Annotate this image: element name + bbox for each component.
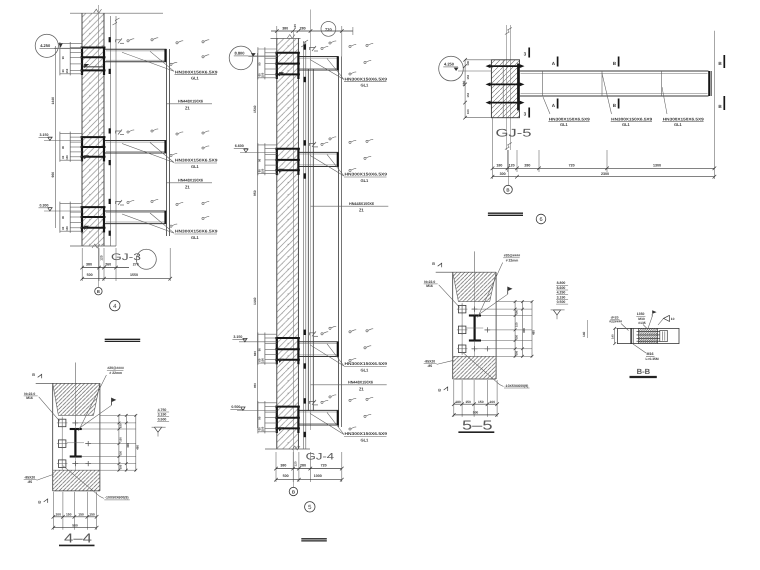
- svg-text:B: B: [506, 188, 509, 193]
- GJ-3 level 2 weld tick above: [109, 128, 111, 133]
- GJ-5 beam splice 3: [661, 71, 663, 96]
- GJ-5 beam splice 1: [541, 71, 543, 96]
- GJ-4 level 4 weld tick below: [304, 432, 306, 437]
- svg-text:90: 90: [61, 145, 65, 149]
- embed plate bar: [275, 73, 300, 75]
- anchor bolts: [70, 206, 82, 208]
- anchor blob: [84, 64, 89, 68]
- GJ-3 beam GL1 level 2 flanges: [104, 140, 167, 142]
- GJ-5 beam end plate: [708, 71, 710, 96]
- svg-text:HN300X150X6.5X9: HN300X150X6.5X9: [345, 431, 388, 436]
- svg-text:1440: 1440: [253, 297, 257, 305]
- svg-text:10: 10: [671, 317, 675, 321]
- svg-text:150: 150: [260, 358, 264, 363]
- GJ-3 beam level 2 end plate: [164, 141, 166, 154]
- GJ-5 level mark 4.250: [439, 56, 464, 81]
- svg-text:1550: 1550: [130, 273, 138, 277]
- svg-text:500: 500: [473, 411, 479, 415]
- svg-text:GL1: GL1: [622, 122, 631, 127]
- section 4–4 right dim lines: [118, 414, 120, 471]
- svg-text:180: 180: [516, 310, 519, 315]
- section 5–5 bottom extension lines: [453, 380, 455, 417]
- svg-text:180: 180: [455, 400, 461, 404]
- GJ-4 level 1 weld specks: [321, 47, 323, 49]
- section 4–4 bolt column centerline: [61, 417, 63, 470]
- GJ-3 bottom extension lines: [81, 248, 83, 281]
- B-B stiffener box: [660, 330, 668, 341]
- GJ-3 beam level 1 end plate: [164, 49, 166, 62]
- GJ-4 level 1 beam leader: [310, 60, 344, 80]
- svg-text:HN448X150X6: HN448X150X6: [348, 380, 374, 385]
- svg-text:380: 380: [280, 464, 286, 468]
- GJ-3 level 2 weld specks: [127, 131, 129, 133]
- section 5–5 right edge: [495, 272, 497, 379]
- embed plate edge bars: [276, 406, 278, 433]
- embed plate bar: [81, 216, 106, 218]
- svg-text:120: 120: [100, 255, 104, 261]
- svg-text:120: 120: [293, 461, 297, 466]
- GJ-3 bottom dim row 2: [82, 278, 170, 280]
- title circle GJ-3: [136, 249, 156, 269]
- svg-text:0.300: 0.300: [40, 204, 49, 208]
- bolt dim verticals: [257, 401, 259, 433]
- svg-text:B: B: [292, 489, 295, 494]
- svg-text:90: 90: [258, 62, 262, 66]
- GJ-4 level 4 weld tick above: [304, 398, 306, 403]
- svg-text:90: 90: [61, 215, 65, 219]
- bolt dim verticals: [257, 47, 259, 79]
- section 4–4 weld flag: [112, 398, 117, 402]
- svg-text:#20@####: #20@####: [107, 366, 124, 370]
- svg-text:150: 150: [65, 226, 69, 231]
- svg-text:GL1: GL1: [361, 83, 370, 88]
- GJ-4 wall right edge: [297, 38, 299, 449]
- svg-text:150: 150: [466, 74, 470, 79]
- svg-text:150: 150: [260, 426, 264, 431]
- section 5–5 column H flanges: [469, 314, 481, 316]
- svg-text:3: 3: [524, 111, 527, 116]
- svg-text:150: 150: [260, 72, 264, 77]
- svg-text:660: 660: [253, 351, 257, 356]
- GJ-4 wall bottom break line: [265, 448, 310, 450]
- GJ-4 level 2 beam leader: [310, 155, 344, 176]
- svg-text:Z1: Z1: [185, 105, 191, 110]
- svg-text:#135: #135: [638, 321, 646, 325]
- GJ-3 level 2 weld flag: [116, 131, 122, 134]
- svg-text:GL1: GL1: [191, 76, 200, 81]
- svg-text:720: 720: [569, 163, 575, 167]
- svg-text:GL1: GL1: [191, 235, 200, 240]
- svg-text:GL1: GL1: [361, 438, 370, 443]
- GJ-4 level 2 weld specks: [321, 143, 323, 145]
- GJ-4 level 3 weld tick below: [304, 363, 306, 368]
- GJ-3 level 1 weld tick below: [109, 69, 111, 74]
- svg-text:300: 300: [500, 172, 506, 176]
- GJ-4 column centerline: [310, 10, 312, 431]
- bolt dim verticals: [59, 132, 61, 162]
- svg-text:HN300X150X6.5X9: HN300X150X6.5X9: [175, 229, 218, 234]
- GJ-4 level 2 weld tick above: [304, 140, 306, 145]
- svg-text:1000: 1000: [314, 474, 322, 478]
- GJ-5 wall block hatch: [491, 60, 519, 118]
- GJ-5 dim row 2: [493, 176, 715, 178]
- section 4–4 title underline: [59, 544, 95, 546]
- bolt dim verticals: [257, 143, 259, 175]
- section 5–5 bottom concrete hatch: [453, 356, 496, 379]
- svg-text:#22####: #22####: [609, 320, 622, 324]
- svg-text:3.150: 3.150: [557, 295, 566, 299]
- svg-text:-85: -85: [427, 364, 432, 368]
- svg-text:GJ-4: GJ-4: [306, 452, 335, 463]
- svg-text:1300: 1300: [653, 163, 661, 167]
- anchor bolts: [265, 148, 277, 150]
- svg-text:GJ-5: GJ-5: [496, 127, 532, 139]
- embed plate bar: [81, 56, 106, 58]
- svg-text:280: 280: [524, 163, 530, 167]
- GJ-4 scale bar: [301, 538, 327, 540]
- svg-text:HN300X150X6.5X9: HN300X150X6.5X9: [175, 69, 218, 74]
- anchor bolts: [70, 47, 82, 49]
- section 4–4 column H web: [74, 429, 76, 457]
- GJ-3 beam GL1 level 1 flanges: [104, 48, 167, 50]
- detail bubble 5: [305, 502, 315, 512]
- GJ-3 left dim line: [54, 46, 56, 228]
- bolt dim verticals: [59, 42, 61, 75]
- GJ-3 level 3 weld flag: [116, 202, 122, 205]
- anchor bolts: [265, 406, 277, 408]
- svg-text:4.750: 4.750: [158, 408, 167, 412]
- anchor blob: [279, 169, 284, 173]
- embed plate bar: [81, 47, 106, 49]
- section 5–5 level triangle: [553, 310, 560, 315]
- svg-text:HN300X150X6.5X9: HN300X150X6.5X9: [663, 116, 705, 121]
- embed plate edge bars: [276, 52, 278, 79]
- svg-text:8.800: 8.800: [557, 281, 566, 285]
- svg-text:300: 300: [522, 328, 526, 333]
- grid line B (GJ-3): [97, 5, 99, 287]
- GJ-5 dim row 1: [493, 167, 715, 169]
- GJ-4 bottom dim row 2: [276, 479, 342, 481]
- section 5–5 bolt crosses: [474, 307, 476, 312]
- GJ-5 scale bar: [488, 212, 523, 214]
- svg-text:0.500: 0.500: [231, 405, 240, 409]
- embed plate bar: [275, 169, 300, 171]
- section 4–4 bottom extension lines: [52, 492, 54, 530]
- svg-text:150: 150: [65, 68, 69, 73]
- section 4–4 top concrete hatch: [53, 383, 100, 415]
- embed plate bar: [81, 227, 106, 229]
- embed plate edge bars: [276, 148, 278, 175]
- svg-text:HN300X150X6.5X9: HN300X150X6.5X9: [345, 361, 388, 366]
- svg-text:150: 150: [465, 400, 471, 404]
- GJ-3 wall bottom break line: [70, 245, 116, 247]
- svg-text:3.150: 3.150: [40, 133, 49, 137]
- svg-text:6.600: 6.600: [235, 144, 244, 148]
- GJ-3 concrete wall hatch: [82, 13, 104, 246]
- embed plate bar: [275, 417, 300, 419]
- GJ-4 beam GL1 level 2 flanges: [298, 151, 338, 153]
- svg-text:0.500: 0.500: [557, 300, 566, 304]
- section 4–4 right edge: [99, 383, 101, 491]
- embed plate bar: [275, 427, 300, 429]
- section 5–5 bolt column centerline: [461, 303, 463, 355]
- GJ-3 top boundary line: [70, 12, 163, 14]
- GJ-4 furring verticals: [302, 41, 304, 449]
- GJ-3 level 1 weld tick above: [109, 37, 111, 42]
- column Z1 label 2: [167, 182, 213, 184]
- svg-text:960: 960: [51, 172, 55, 178]
- svg-text:3: 3: [524, 51, 527, 56]
- section 5–5 centerlines: [474, 251, 476, 272]
- svg-text:3.150: 3.150: [233, 335, 242, 339]
- GJ-4 beam GL1 level 3 flanges: [298, 341, 338, 343]
- GJ-4 level 3 weld specks: [321, 333, 323, 335]
- embed plate bar: [81, 156, 106, 158]
- svg-text:90: 90: [258, 416, 262, 420]
- svg-text:6.600: 6.600: [557, 286, 566, 290]
- svg-text:-85: -85: [27, 480, 32, 484]
- embed plate bar: [81, 136, 106, 138]
- GJ-3 level 2 beam leader: [122, 144, 174, 163]
- svg-text:B: B: [38, 500, 41, 504]
- svg-text:B: B: [97, 289, 100, 294]
- B-B weld flag: [652, 310, 656, 314]
- anchor bolts: [265, 337, 277, 339]
- section 5–5 left edge: [452, 272, 454, 379]
- svg-text:-10X50X600(9): -10X50X600(9): [105, 496, 129, 500]
- svg-text:150: 150: [65, 155, 69, 160]
- svg-text:M16: M16: [26, 396, 33, 400]
- section 5–5 bottom dim row 2: [454, 414, 497, 416]
- GJ-3 beam level 3 end plate: [164, 211, 166, 224]
- GJ-3 furring verticals: [110, 16, 112, 246]
- embed plate bar: [81, 69, 106, 71]
- svg-text:150: 150: [120, 451, 123, 456]
- GJ-5 beam label 3 leader: [662, 87, 667, 114]
- GJ-4 level mark 8.800: [229, 46, 253, 70]
- svg-text:100: 100: [466, 60, 470, 65]
- svg-text:-10X50X600(9): -10X50X600(9): [505, 384, 529, 388]
- section 5–5 title underline: [458, 431, 494, 433]
- svg-text:100: 100: [55, 513, 61, 517]
- svg-text:720: 720: [325, 27, 332, 32]
- svg-text:680: 680: [462, 80, 466, 86]
- anchor bolts: [70, 136, 82, 138]
- svg-text:140: 140: [611, 334, 615, 339]
- svg-text:380: 380: [282, 26, 288, 30]
- svg-text:100: 100: [490, 400, 496, 404]
- svg-text:950: 950: [253, 383, 257, 388]
- GJ-4 concrete wall hatch: [277, 38, 299, 449]
- svg-text:M16: M16: [426, 284, 433, 288]
- embed plate bar: [81, 206, 106, 208]
- GJ-3 level 1 weld flag: [116, 40, 122, 43]
- column Z1 label 1: [167, 103, 213, 105]
- section 4–4 anchor bolt squares: [58, 419, 66, 427]
- GJ-4 level 3 beam leader: [310, 345, 344, 366]
- section 4–4 bolt crosses: [74, 420, 76, 425]
- svg-text:480: 480: [532, 330, 536, 335]
- GJ-4 level 1 weld tick above: [304, 44, 306, 49]
- svg-text:150: 150: [260, 168, 264, 173]
- svg-text:500: 500: [283, 474, 289, 478]
- embed plate bar: [275, 159, 300, 161]
- GJ-4 level 3 weld tick above: [304, 330, 306, 335]
- svg-text:-85X20: -85X20: [24, 476, 35, 480]
- section 4–4 top edge: [36, 382, 100, 384]
- svg-text:500: 500: [72, 523, 78, 527]
- grid bubble B (GJ-4): [289, 487, 297, 495]
- GJ-3 level 3 beam leader: [122, 214, 174, 233]
- GJ-4 left dim line: [257, 53, 259, 428]
- svg-text:M16: M16: [647, 352, 654, 356]
- svg-text:380: 380: [86, 263, 92, 267]
- section 4–4 bottom dim row 2: [53, 527, 96, 529]
- section 4–4 bottom concrete hatch: [53, 470, 100, 491]
- svg-text:5–5: 5–5: [462, 418, 493, 433]
- svg-text:4.250: 4.250: [40, 43, 51, 48]
- GJ-4 level 2 weld flag: [310, 143, 316, 146]
- svg-text:4–4: 4–4: [64, 531, 92, 546]
- GJ-4 beam level 2 end plate: [337, 152, 339, 166]
- svg-text:# 22mm: # 22mm: [506, 258, 519, 262]
- section 5–5 top edge: [436, 271, 496, 273]
- embed plate bar: [275, 348, 300, 350]
- GJ-4 wall top line: [271, 37, 301, 39]
- GJ-5 left dim line: [464, 60, 466, 118]
- svg-text:280: 280: [300, 26, 306, 30]
- B-B left dim: [614, 328, 616, 343]
- anchor blob: [84, 226, 89, 230]
- svg-text:150: 150: [78, 513, 84, 517]
- embed plate bar: [275, 359, 300, 361]
- svg-text:180: 180: [120, 464, 123, 469]
- svg-text:HN448X150X6: HN448X150X6: [178, 178, 204, 183]
- GJ-4 bottom dim row 1: [276, 468, 342, 470]
- svg-text:HN448X150X6: HN448X150X6: [178, 99, 204, 104]
- GJ-3 beam GL1 level 3 flanges: [104, 210, 167, 212]
- detail bubble 6: [536, 214, 546, 224]
- svg-text:180: 180: [120, 423, 123, 428]
- grid bubble B (GJ-3): [95, 288, 102, 295]
- svg-text:B: B: [432, 262, 435, 266]
- svg-text:GL1: GL1: [191, 164, 200, 169]
- GJ-5 beam label 1 leader: [543, 97, 550, 114]
- svg-text:150: 150: [89, 513, 95, 517]
- grid bubble B (GJ-5): [504, 185, 513, 194]
- anchor blob: [279, 359, 284, 363]
- GJ-4 level 4 weld specks: [321, 401, 323, 403]
- svg-text:HN300X150X6.5X9: HN300X150X6.5X9: [345, 172, 388, 177]
- GJ-4 beam level 1 end plate: [337, 57, 339, 71]
- B-B splice hatch zone: [639, 328, 658, 343]
- svg-text:90: 90: [258, 348, 262, 352]
- section 4–4 dim connector lines: [100, 414, 136, 416]
- embed plate edge bars: [81, 136, 83, 161]
- embed plate bar: [275, 52, 300, 54]
- svg-text:150: 150: [478, 400, 484, 404]
- GJ-4 beam level 4 end plate: [337, 410, 339, 425]
- anchor blob: [279, 427, 284, 431]
- svg-text:720: 720: [321, 464, 327, 468]
- grid line B (GJ-4): [292, 31, 294, 487]
- svg-text:8.800: 8.800: [235, 51, 246, 56]
- GJ-3 level mark 4.250: [35, 34, 58, 57]
- GJ-4 bottom extension lines: [275, 452, 277, 482]
- embed plate edge bars: [276, 337, 278, 364]
- GJ-4 beam level 3 end plate: [337, 342, 339, 357]
- anchor bolts: [265, 52, 277, 54]
- embed plate edge bars: [81, 47, 83, 75]
- svg-text:90: 90: [258, 158, 262, 162]
- svg-text:0.500: 0.500: [158, 417, 167, 421]
- svg-text:Z1: Z1: [359, 208, 365, 213]
- svg-text:150: 150: [516, 335, 519, 340]
- section 5–5 anchor bolt squares: [458, 305, 466, 313]
- GJ-3 level 1 beam leader: [122, 52, 174, 71]
- svg-text:HN300X150X6.5X9: HN300X150X6.5X9: [611, 116, 653, 121]
- svg-text:120: 120: [293, 24, 297, 29]
- GJ-3 scale bar: [105, 338, 141, 340]
- embed plate edge bars: [81, 206, 83, 232]
- svg-text:280: 280: [300, 464, 306, 468]
- GJ-3 column Z1 flanges: [166, 49, 168, 236]
- svg-text:260: 260: [105, 263, 111, 267]
- section 5–5 top concrete hatch: [453, 272, 496, 301]
- GJ-4 top extension ticks: [276, 26, 278, 38]
- svg-text:GL1: GL1: [361, 368, 370, 373]
- svg-text:B-B: B-B: [637, 367, 651, 376]
- section 4–4 centerlines: [74, 363, 76, 384]
- svg-text:B: B: [32, 373, 35, 377]
- GJ-3 top break mark: [94, 9, 102, 13]
- embed plate bar: [275, 406, 300, 408]
- GJ-3 level 3 weld specks: [127, 201, 129, 203]
- section 5–5 right dim lines: [514, 301, 516, 358]
- svg-text:# 22mm: # 22mm: [109, 371, 122, 375]
- GJ-5 embed plate bar: [517, 64, 519, 111]
- embed plate bar: [275, 148, 300, 150]
- GJ-3 wall right edge: [103, 13, 105, 246]
- embed plate bar: [81, 146, 106, 148]
- B-B title underline: [630, 376, 657, 378]
- svg-text:L=0.35M: L=0.35M: [646, 357, 659, 361]
- GJ-4 column Z1 flanges: [307, 69, 309, 411]
- svg-text:Z1: Z1: [185, 184, 191, 189]
- svg-text:-85X20: -85X20: [424, 360, 435, 364]
- svg-text:480: 480: [135, 445, 139, 450]
- GJ-4 level 1 weld flag: [310, 48, 316, 51]
- svg-text:GL1: GL1: [674, 122, 683, 127]
- GJ-3 bottom dim row 1: [82, 267, 129, 269]
- GJ-4 right column lines: [338, 57, 340, 428]
- GJ-4 column Z1 label 2: [311, 384, 387, 386]
- bolt dim verticals: [257, 333, 259, 365]
- GJ-4 beam GL1 level 1 flanges: [298, 56, 338, 58]
- GJ-3 level 1 weld specks: [127, 40, 129, 42]
- svg-text:1540: 1540: [253, 105, 257, 113]
- svg-text:HN300X150X6.5X9: HN300X150X6.5X9: [549, 116, 591, 121]
- section 5–5 weld flag: [508, 287, 513, 291]
- svg-text:6: 6: [539, 217, 542, 223]
- anchor blob: [279, 72, 284, 76]
- svg-text:B: B: [438, 389, 441, 393]
- svg-text:GL1: GL1: [361, 178, 370, 183]
- svg-text:150: 150: [120, 437, 123, 442]
- svg-text:140: 140: [582, 331, 586, 337]
- anchor blob: [84, 155, 89, 159]
- svg-text:150: 150: [466, 92, 470, 97]
